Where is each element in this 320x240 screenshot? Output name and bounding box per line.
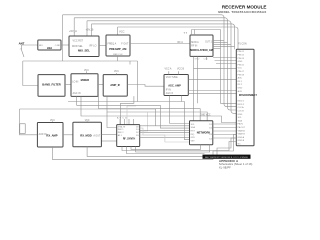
svg-text:PA IN: PA IN — [238, 123, 244, 126]
svg-text:VCC: VCC — [85, 120, 90, 122]
wire U2 to U3 — [99, 45, 106, 47]
svg-text:MIXER: MIXER — [81, 78, 90, 82]
pin labels above U11 — [117, 117, 134, 125]
svg-text:VBAT B: VBAT B — [238, 133, 246, 136]
wire net AGC rail to U11 area — [20, 109, 156, 126]
wire U9 to U10 — [63, 134, 73, 136]
svg-text:GND A: GND A — [238, 136, 245, 139]
svg-text:XL-9E/PF: XL-9E/PF — [219, 166, 231, 169]
wire U4 pin GND down to U12 top and branch to P1 — [194, 56, 237, 120]
wire stub U3 top pin — [117, 27, 119, 35]
wire U11 pin D0 to U12 — [140, 125, 190, 127]
wire light stub to U11 top — [127, 106, 136, 125]
wire U6 bottom pin 3 crossing to P1 — [81, 96, 236, 122]
svg-text:INTERCONNECT: INTERCONNECT — [239, 95, 258, 97]
svg-text:SDA: SDA — [191, 126, 196, 129]
svg-text:GND: GND — [238, 61, 243, 63]
wire U4 pin OUT1 to BUS1 — [213, 40, 224, 42]
capacitor C1 on left drop — [20, 124, 25, 134]
svg-text:+5V_A: +5V_A — [69, 29, 77, 33]
power tap labels above U2 — [69, 27, 94, 33]
svg-text:VCC: VCC — [50, 120, 55, 122]
svg-text:IF IN: IF IN — [166, 90, 171, 92]
svg-text:P1 CON: P1 CON — [238, 43, 247, 45]
wire U1 to U2 — [61, 44, 69, 46]
svg-text:F OUT: F OUT — [121, 43, 129, 46]
wire U10 to U11 — [101, 134, 116, 136]
svg-text:RF A: RF A — [178, 41, 184, 44]
wire U3 to U4 — [130, 43, 190, 45]
synthesizer U11 RF_SYNTH — [117, 125, 140, 147]
svg-text:AGC IN: AGC IN — [73, 92, 81, 95]
wire bus net BUS2 to P1 pin — [74, 18, 236, 110]
svg-text:MOD SEL: MOD SEL — [72, 45, 83, 48]
wire U4 top pins — [192, 30, 221, 36]
svg-text:VCO TUNE: VCO TUNE — [166, 77, 178, 79]
svg-text:T T: T T — [184, 32, 188, 35]
svg-text:A OUT: A OUT — [93, 134, 100, 137]
wire stubs U2 top pins — [74, 18, 91, 36]
mid rail wire — [23, 60, 138, 62]
svg-text:MOD 2: MOD 2 — [238, 104, 245, 106]
svg-text:CLK B: CLK B — [238, 111, 245, 113]
wire J1 to U1 — [22, 44, 38, 46]
controller U12 NETWORK — [190, 121, 213, 145]
wire U12 pin D3 to P1 — [213, 130, 237, 132]
svg-text:MOD 1: MOD 1 — [238, 101, 245, 103]
wire U11 pin D4 jog to U12 — [140, 128, 190, 135]
wire U8 pin REF to P1 — [188, 92, 236, 94]
wire U7 bottom pin 2 to U11 top pin A — [121, 96, 134, 125]
sheet title RECEIVER MODULE — [218, 5, 266, 14]
svg-text:VCC: VCC — [84, 70, 89, 72]
wire mid rail down right — [137, 61, 139, 102]
wire stub bus to mid rail — [62, 15, 64, 61]
mixer U2 MIX_SEL — [69, 36, 99, 57]
svg-text:GND B: GND B — [238, 140, 245, 142]
svg-text:PIN 02: PIN 02 — [238, 55, 245, 57]
wire U12 pin D1 to P1 — [213, 123, 237, 125]
demodulator U10 RX_MOD — [73, 122, 102, 147]
svg-text:PIN 05: PIN 05 — [238, 64, 245, 66]
wire U11 pin D3 to U12 — [140, 136, 190, 138]
svg-text:CLK A: CLK A — [238, 106, 245, 109]
wire U12 pin D2 to P1 — [213, 127, 237, 129]
svg-text:CLK: CLK — [204, 58, 209, 60]
svg-text:VCC: VCC — [238, 68, 243, 70]
wire U11 bottom pin 3 to U12 bottom pin — [131, 145, 201, 150]
svg-text:AGC_AMP: AGC_AMP — [168, 84, 181, 87]
svg-text:REF 1: REF 1 — [118, 129, 125, 131]
svg-text:AMP_IF: AMP_IF — [110, 83, 120, 87]
wire net IF1 to U12 lower pin — [68, 102, 190, 140]
svg-text:PA OUT: PA OUT — [238, 126, 246, 129]
wire U4 pin OUT3 to BUS3 — [213, 44, 231, 46]
svg-text:O RF: O RF — [55, 45, 61, 47]
svg-text:XTAL IN: XTAL IN — [118, 125, 126, 128]
svg-text:RF_SYNTH: RF_SYNTH — [123, 138, 136, 140]
wire U8 pin OUT to P1 — [188, 79, 236, 81]
svg-text:NETWORK: NETWORK — [197, 130, 211, 134]
svg-text:NC: NC — [238, 144, 242, 146]
filter U5 BAND_FILTER — [38, 75, 65, 97]
wire bus net BUS5 to P1 top pin — [118, 27, 239, 49]
wire U6 bottom pin 2 to U12 top pin GND — [99, 96, 201, 121]
svg-text:RF I: RF I — [39, 45, 44, 47]
svg-text:SDA: SDA — [238, 119, 243, 122]
power taps above U9 U10 — [50, 120, 90, 123]
wire bus net BUS6 to P1 pin — [221, 30, 237, 104]
svg-text:MODEL TR3455AX/CR3456AX: MODEL TR3455AX/CR3456AX — [218, 10, 266, 14]
svg-text:RF LO: RF LO — [89, 44, 96, 47]
svg-text:PIN 08: PIN 08 — [238, 74, 245, 76]
svg-text:REF CLK: REF CLK — [113, 54, 123, 56]
svg-text:GND: GND — [238, 114, 243, 116]
antenna input J1 — [19, 41, 25, 57]
title block bar — [203, 155, 251, 159]
svg-text:ANY REPRINT VERSION B, FCC LIC: ANY REPRINT VERSION B, FCC LICENSE — [205, 156, 248, 159]
wire light net to U11 left pin — [117, 112, 148, 131]
wire U7 net down to U11 pin REF1 — [107, 112, 117, 128]
svg-text:GND VCC: GND VCC — [200, 115, 211, 117]
power taps above U8 — [165, 67, 185, 74]
wire U7 bottom pin to U12 top pin VCC — [107, 96, 207, 121]
wire bus net BUS4 to P1 top pin — [92, 24, 235, 49]
wire U4 lower pins to P1 pins — [213, 58, 236, 64]
wire U4 pin OUT4 to BUS4 — [213, 46, 235, 48]
svg-text:VCC: VCC — [119, 29, 125, 33]
svg-text:PIN 03: PIN 03 — [238, 58, 245, 60]
svg-text:LNA: LNA — [47, 46, 52, 50]
wire U11 bottom pin 4 to U12 bottom pin 2 — [136, 145, 210, 152]
svg-text:PIN 01: PIN 01 — [238, 51, 245, 53]
svg-text:VBAT A: VBAT A — [238, 129, 246, 132]
amplifier U1 LNA — [38, 40, 61, 50]
svg-text:VCC: VCC — [114, 71, 119, 73]
svg-text:BAND_FILTER: BAND_FILTER — [42, 83, 61, 87]
svg-text:GND: GND — [195, 58, 200, 60]
wire U6 bottom pin to U12 pin SDA — [77, 96, 190, 128]
wire U10 bottom pin to P1 — [87, 138, 236, 156]
svg-text:A B C D: A B C D — [117, 117, 127, 120]
svg-text:AGC O: AGC O — [166, 92, 174, 95]
wire U11 pin D5 jog to U12 — [140, 135, 190, 142]
svg-text:PIN 07: PIN 07 — [238, 71, 245, 73]
power tap labels above U12 — [200, 115, 211, 121]
svg-text:AUX: AUX — [238, 90, 243, 93]
power tap above U6 — [84, 70, 89, 74]
svg-text:OUT 1: OUT 1 — [205, 41, 212, 43]
mixer U6 MIXER — [71, 74, 98, 97]
wire U12 pin D5 to P1 — [213, 137, 237, 139]
wire bus net BUS3 to P1 pin — [87, 21, 236, 114]
wire U5 to U6 — [65, 84, 71, 86]
wire U4 pin OUT5 to BUS6 — [213, 48, 221, 50]
svg-text:RX_MOD: RX_MOD — [80, 134, 92, 138]
svg-text:REF 2: REF 2 — [118, 132, 125, 134]
svg-text:RX_AMP: RX_AMP — [46, 134, 57, 138]
svg-text:VCC RST: VCC RST — [73, 40, 84, 43]
svg-text:AGC: AGC — [238, 77, 243, 80]
svg-text:MIX_SEL: MIX_SEL — [78, 49, 90, 53]
amplifier U8 AGC_AMP — [164, 75, 188, 96]
wire bracket into U5 — [23, 61, 38, 86]
wire U11 bottom pin 2 rail — [126, 147, 204, 154]
wire U6 to U7 — [98, 84, 103, 86]
svg-text:LO IN: LO IN — [72, 81, 78, 83]
wire U10 second pin to U11 — [101, 140, 116, 142]
wire U8 bottom stubs — [170, 96, 190, 124]
svg-text:MODULATION_AM: MODULATION_AM — [190, 48, 213, 52]
svg-text:RST: RST — [191, 131, 196, 133]
svg-text:MOD A: MOD A — [191, 41, 199, 44]
svg-text:GND: GND — [238, 88, 243, 90]
wire U3 bottom stub — [118, 56, 131, 65]
modulator U4 MODULATION_AM — [190, 35, 213, 56]
amplifier U3 PREAMP_AM — [106, 35, 130, 56]
svg-text:VCC A: VCC A — [165, 67, 172, 70]
amplifier U7 AMP_IF — [103, 75, 127, 97]
wire U11 bottom pin 1 to P1 — [122, 142, 236, 151]
title block text — [219, 159, 253, 169]
wire U12 pin D4 to P1 — [213, 134, 237, 136]
power tap above U7 — [114, 71, 119, 75]
wire U11 pin D1 to U12 — [140, 129, 190, 131]
svg-text:VCC B: VCC B — [177, 68, 184, 70]
svg-text:+5V_B: +5V_B — [86, 27, 94, 31]
amplifier U9 RX_AMP — [37, 123, 63, 148]
svg-text:PREAMP_AM: PREAMP_AM — [109, 47, 127, 51]
wire bracket into U9 via C1 — [20, 109, 38, 135]
svg-text:RF IN: RF IN — [191, 45, 197, 47]
svg-text:IRQ: IRQ — [191, 134, 195, 136]
wire U7 to U8 — [127, 85, 164, 87]
wire U8 pin AGC to P1 — [188, 90, 236, 92]
wire U4 pin OUT2 to BUS2 — [213, 42, 228, 44]
connector P1 INTERCONNECT — [236, 43, 257, 145]
wire bus net BUS1 to P1 pin — [63, 15, 237, 107]
svg-text:FREQ A: FREQ A — [108, 43, 117, 46]
wire U11 pin D2 to U12 — [140, 132, 190, 134]
wire U9 bottom pin to P1 — [52, 135, 236, 160]
